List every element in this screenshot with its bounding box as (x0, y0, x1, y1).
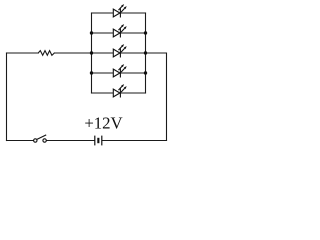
LED D5 (113, 84, 126, 97)
node left rail row2 (90, 31, 93, 34)
svg-text:+12V: +12V (84, 114, 122, 133)
LED D4 (113, 64, 126, 77)
node right rail row4 (144, 71, 147, 74)
wire switch to bottom-left corner (7, 140, 34, 142)
wire left side of loop (6, 53, 8, 141)
wire right rail to top-right corner and down right side (146, 53, 167, 141)
wire row5 (92, 92, 146, 94)
wire left LED rail (91, 13, 93, 93)
node left rail row3 (90, 51, 93, 54)
LED D3 (113, 44, 126, 57)
node right rail row2 (144, 31, 147, 34)
wire right LED rail (145, 13, 147, 93)
resistor R1 (38, 51, 54, 56)
wire row4 (92, 72, 146, 74)
LED D1 (113, 4, 126, 17)
wire top left segment (7, 52, 39, 54)
wire resistor to left rail (54, 52, 91, 54)
wire row2 (92, 32, 146, 34)
wire row3 (92, 52, 146, 54)
wire row1 (92, 12, 146, 14)
battery BT1 (95, 136, 102, 146)
wire bottom right segment (102, 140, 166, 142)
switch S1 (34, 135, 47, 142)
LED D2 (113, 24, 126, 37)
node right rail row3 (144, 51, 147, 54)
wire battery to switch (46, 140, 94, 142)
node left rail row4 (90, 71, 93, 74)
